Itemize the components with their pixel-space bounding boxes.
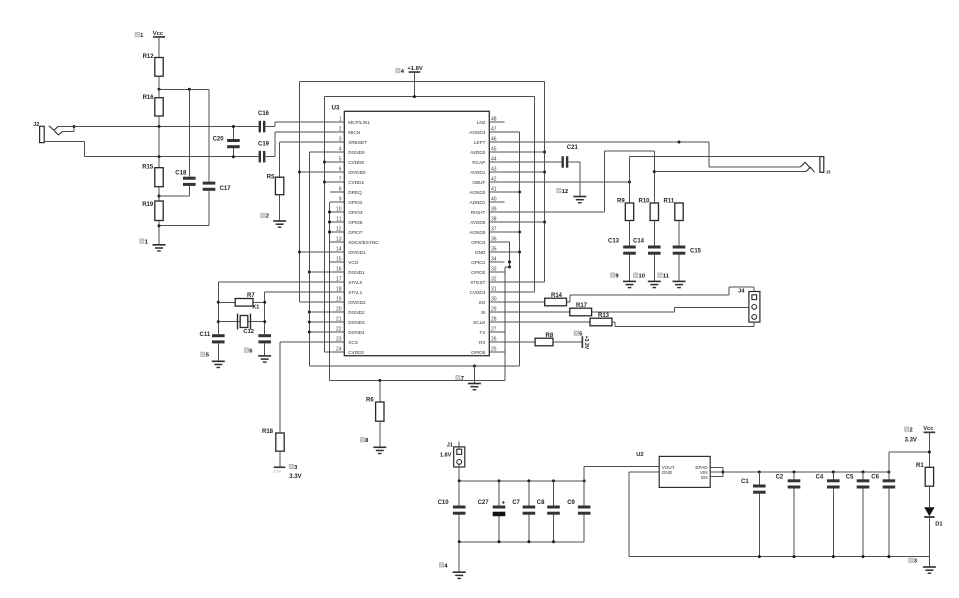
note 10 at C14 ground: [634, 273, 638, 278]
resistor R8: [535, 338, 553, 346]
svg-text:DGND2: DGND2: [348, 310, 365, 315]
svg-text:XCS: XCS: [348, 340, 358, 345]
wire U2 GND to ground bus: [629, 471, 659, 473]
capacitor C2: [793, 472, 795, 479]
wire XTEST pin32 to AVDD bus: [504, 281, 544, 283]
resistor R9: [625, 203, 633, 221]
wire pin22 DGND4 to bus: [309, 331, 330, 333]
resistor R10: [650, 203, 658, 221]
svg-text:15: 15: [336, 256, 342, 262]
svg-text:R9: R9: [617, 199, 625, 205]
svg-text:ADND1: ADND1: [470, 200, 486, 205]
svg-text:C11: C11: [200, 332, 211, 338]
svg-text:C7: C7: [512, 500, 520, 506]
svg-text:DGND3: DGND3: [348, 320, 365, 325]
wire pin35 GND to bus: [504, 251, 519, 253]
wire inner +1.8V CVDD bus top: [325, 96, 535, 98]
wire U2 input pins tied: [722, 467, 724, 476]
wire pin38 AVDD0 to bus: [504, 221, 544, 223]
wire C17 bottom to node: [159, 225, 209, 227]
svg-text:AGND2: AGND2: [469, 190, 486, 195]
wire C19 to pin2 MICN: [265, 156, 275, 158]
junction AGND pins 41/37/35: [518, 191, 521, 194]
junction CVDD pin5 / pin7: [323, 161, 326, 164]
capacitor C8: [553, 481, 555, 506]
junction R19/C17 bottom: [158, 224, 161, 227]
wire pin21 DGND3 to bus: [309, 321, 330, 323]
svg-text:2: 2: [339, 126, 342, 132]
ground at R5: [273, 220, 286, 222]
svg-text:C8: C8: [537, 500, 545, 506]
wire U2 VOUT to 1.8V rail: [583, 467, 585, 481]
capacitor C27 electrolytic: [498, 481, 500, 506]
svg-text:U3: U3: [332, 105, 340, 112]
wire C21 to ground: [568, 161, 580, 163]
svg-text:J3: J3: [826, 170, 831, 175]
resistor R14: [545, 298, 567, 306]
wire R5 bottom lead: [279, 195, 281, 221]
diode D1: [924, 507, 934, 516]
wire C15 to ground: [678, 255, 680, 282]
junction IOVDD pin6 / pin14: [298, 171, 301, 174]
wire R19 bottom: [158, 221, 160, 245]
svg-text:GPIO4: GPIO4: [471, 240, 486, 245]
wire C18 bottom lead: [188, 186, 190, 196]
capacitor C14: [648, 246, 661, 249]
wire pin4 DGND0 connection: [309, 151, 330, 153]
resistor R15: [155, 168, 163, 187]
connector J2 ring contact: [54, 131, 63, 135]
capacitor C4: [832, 472, 834, 479]
capacitor C17: [208, 89, 210, 181]
wire pin41 AGND2 to bus: [504, 191, 519, 193]
wire AVDD bus right vertical: [544, 82, 546, 283]
wire pin5 CVDD0 to bus: [325, 161, 331, 163]
junction crystal nodes: [217, 301, 220, 304]
svg-text:9: 9: [339, 196, 342, 202]
resistor R5: [275, 177, 283, 195]
capacitor C10: [458, 481, 460, 506]
U3 pin stubs right pins 48-25: [489, 121, 504, 123]
regulator U2 body: [659, 456, 710, 487]
svg-text:DGND0: DGND0: [348, 150, 365, 155]
svg-text:10: 10: [639, 274, 645, 280]
wire 1.8V ground bus: [459, 541, 584, 543]
wire R6 bottom lead: [379, 421, 381, 447]
capacitor C9: [583, 481, 585, 506]
ground at cap bank: [453, 571, 466, 573]
svg-text:46: 46: [491, 136, 497, 142]
capacitor C6: [888, 472, 890, 479]
junction Vcc / R1: [928, 451, 931, 454]
wire R16 bottom to R15 top: [158, 127, 160, 157]
resistor R7: [235, 299, 253, 307]
resistor R12: [155, 58, 163, 77]
svg-text:J4: J4: [738, 288, 745, 294]
note 8 at R6 ground: [360, 438, 364, 443]
svg-text:R19: R19: [142, 202, 154, 208]
note 3 and 3.3V label at R18: [289, 464, 293, 469]
wire R9 to C13: [629, 221, 631, 246]
junction C18 top: [188, 88, 191, 91]
svg-text:VCO: VCO: [348, 260, 359, 265]
ground at C12: [258, 355, 271, 357]
ground at C15: [673, 280, 686, 282]
wire R11 to C15: [678, 221, 680, 246]
capacitor C15: [673, 246, 686, 249]
wire RIGHT pin39 net: [504, 211, 604, 213]
wire XCS pin23 to R18: [280, 341, 330, 343]
wire GPIO pulldown bus below U3: [330, 380, 506, 382]
power +1.8V symbol at top of U3: [409, 71, 421, 73]
svg-text:R13: R13: [598, 313, 610, 319]
svg-text:AGND0: AGND0: [469, 230, 486, 235]
svg-text:C1: C1: [741, 479, 749, 485]
wire pin45 AVDD2 to bus: [504, 151, 544, 153]
svg-text:21: 21: [336, 316, 342, 322]
note 3 at bottom right ground: [909, 558, 913, 563]
svg-text:U2: U2: [636, 452, 643, 458]
svg-text:24: 24: [336, 346, 342, 352]
svg-text:RX: RX: [479, 340, 486, 345]
note 5 at C11 ground: [201, 352, 205, 357]
capacitor C18: [188, 89, 190, 176]
resistor R6: [376, 402, 384, 421]
svg-text:AVDD1: AVDD1: [470, 170, 486, 175]
svg-text:1.8V: 1.8V: [440, 453, 452, 459]
wire J2 ring contact to tip net: [63, 131, 74, 133]
svg-text:16: 16: [336, 266, 342, 272]
connector J1 body: [454, 447, 465, 467]
resistor R18: [276, 433, 284, 451]
svg-text:GPIO3: GPIO3: [348, 210, 363, 215]
wire GPIO bus left vertical pins 9-12: [329, 202, 331, 381]
connector J4 pin3 circle: [752, 315, 757, 320]
svg-text:33: 33: [491, 266, 497, 272]
svg-text:RCAP: RCAP: [472, 160, 485, 165]
svg-text:+3.3V: +3.3V: [583, 336, 589, 350]
wire R7 left lead: [218, 301, 235, 303]
svg-text:IOVDD2: IOVDD2: [348, 300, 366, 305]
wire RX pin26 to R8: [504, 341, 535, 343]
svg-text:XRESET: XRESET: [348, 140, 367, 145]
power 3.3V rail symbol below R18: [274, 466, 286, 468]
svg-text:R1: R1: [916, 463, 924, 469]
wire U2 VIN stub: [710, 471, 723, 473]
svg-text:GPIO1: GPIO1: [471, 260, 486, 265]
wire GBUF to R9: [629, 182, 631, 203]
svg-text:C9: C9: [567, 500, 575, 506]
note 4 at cap bank ground: [439, 563, 443, 568]
junction ring net: [158, 155, 161, 158]
svg-text:TX: TX: [479, 330, 486, 335]
wire IOVDD2 pin19 connection: [300, 301, 331, 303]
junction R6 on GPIO bus: [378, 379, 381, 382]
svg-text:CVDD3: CVDD3: [470, 290, 486, 295]
junction C20 bottom: [232, 155, 235, 158]
svg-text:C5: C5: [846, 474, 854, 480]
svg-text:C20: C20: [213, 136, 225, 142]
connector J2 body: [40, 126, 45, 142]
wire input tip net to C16: [58, 126, 258, 128]
svg-text:R17: R17: [576, 303, 588, 309]
svg-text:LN2: LN2: [477, 120, 486, 125]
capacitor C1: [758, 472, 760, 485]
svg-text:LEFT: LEFT: [474, 140, 486, 145]
svg-text:SCLK: SCLK: [473, 320, 486, 325]
wire R1 to D1: [928, 486, 930, 507]
junction R16/tip net: [158, 125, 161, 128]
wire pin24 CVDD2 connection: [325, 351, 331, 353]
capacitor C19: [259, 151, 261, 163]
svg-text:GND: GND: [662, 470, 673, 475]
svg-text:Vcc: Vcc: [153, 31, 164, 37]
wire pin16 DGND1 to bus: [309, 271, 330, 273]
svg-text:C6: C6: [871, 474, 879, 480]
wire GBUF to J3 body: [629, 157, 631, 182]
note 4 at +1.8V: [396, 68, 400, 73]
wire D1 to ground bus: [928, 518, 930, 557]
connector J1 pin1 square: [457, 449, 462, 454]
note 5 at R8 power: [574, 331, 578, 336]
wire R12 to node: [158, 76, 160, 89]
wire C14 to ground: [653, 255, 655, 282]
svg-text:DREQ: DREQ: [348, 190, 362, 195]
svg-text:13: 13: [336, 236, 342, 242]
wire bottom ground bus: [629, 556, 930, 558]
svg-text:29: 29: [491, 306, 497, 312]
wire RCAP pin44 to C21: [504, 161, 561, 163]
svg-text:22: 22: [336, 326, 342, 332]
capacitor C16: [259, 121, 261, 133]
wire J1 pin2 to 1.8V rail: [458, 464, 460, 481]
wire R14 to J4 pin1: [567, 301, 571, 303]
ground at bottom right: [923, 566, 936, 568]
svg-text:1: 1: [339, 116, 342, 122]
svg-text:XDCS/BSYNC: XDCS/BSYNC: [348, 240, 379, 245]
svg-text:43: 43: [491, 166, 497, 172]
svg-text:R10: R10: [639, 199, 651, 205]
svg-text:4: 4: [339, 146, 342, 152]
svg-text:3.3V: 3.3V: [905, 437, 917, 443]
svg-text:CVDD1: CVDD1: [348, 180, 364, 185]
wire DGND bus left vertical: [308, 152, 310, 366]
wire pin20 DGND2 to bus: [309, 311, 330, 313]
svg-text:Vcc: Vcc: [923, 426, 934, 432]
wire SI pin29 to R17: [504, 311, 570, 313]
svg-text:GPIO0: GPIO0: [471, 270, 486, 275]
svg-text:C17: C17: [220, 186, 232, 192]
svg-text:44: 44: [491, 156, 497, 162]
wire R6 top lead: [379, 381, 381, 403]
svg-text:R11: R11: [664, 199, 675, 205]
wire J2 body to ring net: [44, 141, 84, 143]
svg-text:C14: C14: [633, 239, 645, 245]
ground at C21: [573, 196, 586, 198]
svg-text:35: 35: [491, 246, 497, 252]
capacitor C7: [528, 481, 530, 506]
wire R15 to R19: [158, 187, 160, 201]
svg-text:GPIO6: GPIO6: [348, 220, 363, 225]
svg-text:MICN: MICN: [348, 130, 360, 135]
svg-text:RIGHT: RIGHT: [471, 210, 486, 215]
svg-text:DGND4: DGND4: [348, 330, 365, 335]
junction GBUF node: [628, 181, 631, 184]
wire input ring net to C19: [84, 156, 258, 158]
svg-text:3: 3: [339, 136, 342, 142]
IC U3 body: [344, 111, 489, 355]
svg-text:GPIO7: GPIO7: [348, 230, 363, 235]
wire ground stem bottom right: [928, 557, 930, 567]
wire pin31 CVDD3 connection: [504, 291, 534, 293]
wire AGND bus right vertical: [519, 132, 521, 366]
svg-text:11: 11: [336, 216, 341, 222]
svg-text:19: 19: [336, 296, 342, 302]
wire R18 bottom lead: [279, 451, 281, 466]
svg-text:30: 30: [491, 296, 497, 302]
svg-text:AGND3: AGND3: [469, 130, 486, 135]
svg-text:39: 39: [491, 206, 497, 212]
note 1 at input ground: [140, 239, 144, 244]
svg-text:GBUF: GBUF: [472, 180, 485, 185]
U3 pin stubs left pins 1-24: [330, 121, 344, 123]
svg-text:25: 25: [491, 346, 497, 352]
wire XTAL0 pin17: [218, 281, 330, 283]
wire SCLK pin28 to R13: [504, 321, 590, 323]
resistor R13: [590, 318, 612, 326]
junction DGND pins 16/20/21/22: [308, 271, 311, 274]
svg-text:27: 27: [491, 326, 497, 332]
svg-text:2: 2: [266, 214, 269, 220]
svg-text:R14: R14: [551, 293, 563, 299]
wire XRESET pin3 to R5: [280, 141, 330, 143]
wire IOVDD bus left vertical: [299, 82, 301, 303]
junction +1.8V to CVDD bus: [413, 95, 416, 98]
note 2 and 3.3V label at Vcc: [905, 427, 909, 432]
svg-text:D1: D1: [935, 521, 943, 527]
svg-text:SO: SO: [479, 300, 486, 305]
note 1 at Vcc: [135, 32, 139, 37]
wire XTAL1 pin18: [265, 291, 330, 293]
capacitor C5: [862, 472, 864, 479]
svg-text:20: 20: [336, 306, 342, 312]
svg-text:R16: R16: [143, 95, 155, 101]
wire U2 EPAD stub: [710, 466, 723, 468]
capacitor C11: [212, 334, 225, 337]
svg-text:R15: R15: [142, 165, 154, 171]
wire 1.8V rail top bus: [459, 480, 584, 482]
svg-text:48: 48: [491, 116, 497, 122]
wire pin36 GPIO4 connection: [504, 241, 509, 243]
svg-text:C16: C16: [258, 111, 270, 117]
svg-text:C12: C12: [243, 329, 254, 335]
junction RIGHT to J3 branch: [653, 170, 656, 173]
svg-text:X1: X1: [252, 304, 260, 310]
svg-text:C15: C15: [690, 249, 702, 255]
junction J2 contacts: [73, 125, 76, 128]
junction GPIO pins 10/11/12: [328, 211, 331, 214]
wire pin33 GPIO0 connection: [503, 271, 506, 273]
wire ground bus below U3: [309, 365, 519, 367]
svg-text:MCP/LIN1: MCP/LIN1: [348, 120, 370, 125]
svg-text:CVDD2: CVDD2: [348, 350, 364, 355]
note 12 at C21 ground: [557, 188, 561, 193]
connector J3 upper contact: [801, 162, 811, 168]
wire SO pin30 to R14: [504, 301, 544, 303]
svg-text:C18: C18: [175, 171, 187, 177]
wire CVDD bus left vertical: [324, 97, 326, 352]
connector J4 body: [749, 292, 760, 323]
junction GPIO jog: [508, 266, 511, 269]
resistor R19: [155, 201, 163, 221]
svg-text:3.3V: 3.3V: [274, 469, 282, 473]
svg-text:DGND1: DGND1: [348, 270, 365, 275]
svg-text:10: 10: [336, 206, 342, 212]
crystal X1: [237, 314, 239, 330]
svg-text:3.3V: 3.3V: [289, 474, 301, 480]
connector J2 tip contact: [49, 126, 59, 131]
svg-text:34: 34: [491, 256, 497, 262]
svg-text:C19: C19: [258, 142, 270, 148]
wire R10 to C14: [653, 221, 655, 246]
wire R8 to 3.3V: [553, 341, 582, 343]
svg-text:40: 40: [491, 196, 497, 202]
wire Vcc feed to 3.3V bus: [888, 452, 890, 472]
junction bottom ground bus caps: [758, 555, 761, 558]
wire R13 to J4 pin3: [612, 321, 615, 323]
svg-text:47: 47: [491, 126, 497, 132]
junction AVDD pins 45/43/38: [543, 151, 546, 154]
svg-text:C2: C2: [776, 474, 784, 480]
svg-text:17: 17: [336, 276, 342, 282]
ground at input divider: [153, 244, 166, 246]
wire 3.3V cap bus: [723, 471, 889, 473]
svg-text:28: 28: [491, 316, 497, 322]
svg-text:R8: R8: [546, 333, 554, 339]
svg-text:R18: R18: [262, 429, 274, 435]
wire C11 bottom lead: [217, 343, 219, 361]
svg-text:R5: R5: [267, 175, 275, 181]
svg-text:J1: J1: [447, 443, 453, 449]
power +3.3V sideways symbol at R8: [582, 336, 584, 348]
svg-text:+1.8V: +1.8V: [407, 66, 422, 72]
svg-text:12: 12: [562, 189, 568, 195]
svg-text:36: 36: [491, 236, 497, 242]
svg-text:CVDD0: CVDD0: [348, 160, 364, 165]
capacitor C13: [623, 246, 636, 249]
junction ground bus caps: [458, 540, 461, 543]
svg-text:7: 7: [461, 376, 464, 382]
svg-text:R7: R7: [247, 293, 255, 299]
svg-text:XTAL0: XTAL0: [348, 280, 362, 285]
resistor R11: [675, 203, 683, 221]
wire ground stem: [458, 542, 460, 572]
svg-text:C10: C10: [438, 500, 450, 506]
svg-text:R6: R6: [366, 398, 374, 404]
svg-text:J2: J2: [33, 122, 39, 128]
wire C17 bottom lead: [208, 191, 210, 226]
svg-text:26: 26: [491, 336, 497, 342]
svg-text:32: 32: [491, 276, 497, 282]
ground at C13: [623, 280, 636, 282]
note 6 at C12 ground: [244, 348, 248, 353]
svg-text:GND: GND: [475, 250, 486, 255]
connector J1 pin1 stub up: [458, 442, 460, 450]
svg-text:31: 31: [491, 286, 497, 292]
note 2 at R5 ground: [261, 213, 265, 218]
connector J4 pin2 circle: [752, 305, 757, 310]
svg-text:2: 2: [910, 428, 913, 434]
